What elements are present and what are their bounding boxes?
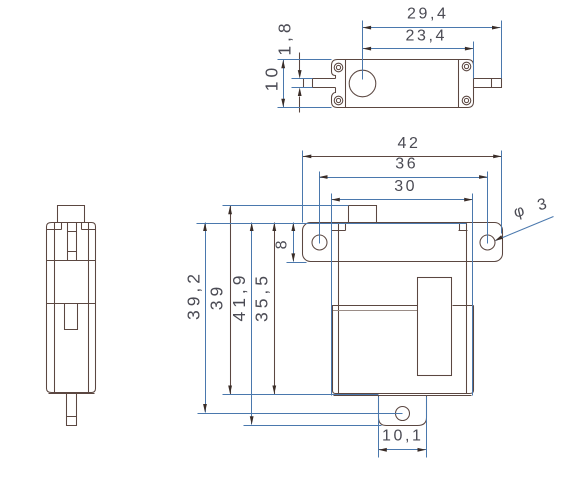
svg-text:41,9: 41,9	[229, 271, 249, 321]
svg-text:39: 39	[207, 283, 227, 310]
front view flange hole right	[480, 235, 495, 250]
dimension 8	[274, 223, 307, 263]
front view upper case sides	[339, 223, 467, 394]
svg-text:φ: φ	[512, 202, 529, 222]
top view right ear tab	[474, 79, 502, 88]
svg-text:29,4: 29,4	[407, 6, 449, 23]
svg-text:10,1: 10,1	[382, 428, 424, 445]
dimension phi 3 leader	[495, 195, 554, 241]
top view right boss divider	[458, 60, 460, 108]
svg-text:1,8: 1,8	[274, 19, 294, 55]
top view left ear tab	[304, 79, 336, 88]
svg-text:8: 8	[274, 238, 291, 250]
dimension 10,1	[378, 397, 426, 458]
svg-text:39,2: 39,2	[184, 270, 204, 320]
top view screw hole bottom-right	[462, 96, 471, 105]
dimension 41,9	[229, 223, 253, 425]
side view ear channel	[68, 223, 77, 261]
side view hanging detail	[65, 304, 78, 330]
dimension 30	[331, 178, 472, 395]
dimension 35,5	[252, 223, 277, 395]
front view lower case outline	[333, 306, 474, 394]
front view flange hole left	[312, 235, 327, 250]
dimension 36	[319, 155, 488, 243]
side view body outline	[47, 223, 96, 394]
front view left notch	[332, 223, 346, 231]
extension lines left of front view	[197, 206, 467, 426]
front view right notch	[459, 223, 468, 231]
front view flange plate	[303, 223, 503, 262]
side view bottom tab	[67, 394, 77, 426]
front view top boss	[349, 206, 377, 223]
top view output shaft circle	[349, 70, 376, 97]
svg-text:35,5: 35,5	[252, 272, 272, 322]
top view screw hole bottom-left	[334, 96, 343, 105]
top view body outline	[332, 60, 474, 108]
dimension 23,4	[363, 27, 474, 78]
side view flange notches	[47, 223, 96, 230]
dimension 10	[262, 60, 332, 108]
top view screw hole top-left	[334, 63, 343, 72]
front view inner rectangle	[418, 278, 452, 376]
front view bottom tab	[379, 396, 427, 426]
svg-text:30: 30	[394, 178, 417, 195]
front view case seam	[332, 305, 474, 307]
top view left boss divider	[345, 60, 347, 108]
top view screw hole top-right	[462, 62, 471, 71]
front view bottom tab hole	[396, 407, 410, 421]
dimension 42	[303, 135, 502, 233]
svg-text:42: 42	[398, 135, 421, 152]
svg-text:10: 10	[262, 64, 282, 91]
side view shaft boss	[58, 206, 85, 223]
svg-text:36: 36	[395, 155, 418, 172]
side view case seam line	[47, 303, 96, 305]
dimension 39	[207, 206, 232, 395]
dimension 1,8	[274, 19, 312, 112]
dimension 39,2	[184, 223, 207, 413]
svg-text:3: 3	[536, 195, 552, 214]
dimension 29,4	[363, 6, 502, 80]
svg-text:23,4: 23,4	[406, 27, 448, 44]
side view inner case lines	[55, 223, 89, 393]
side view flange bottom line	[47, 260, 96, 262]
